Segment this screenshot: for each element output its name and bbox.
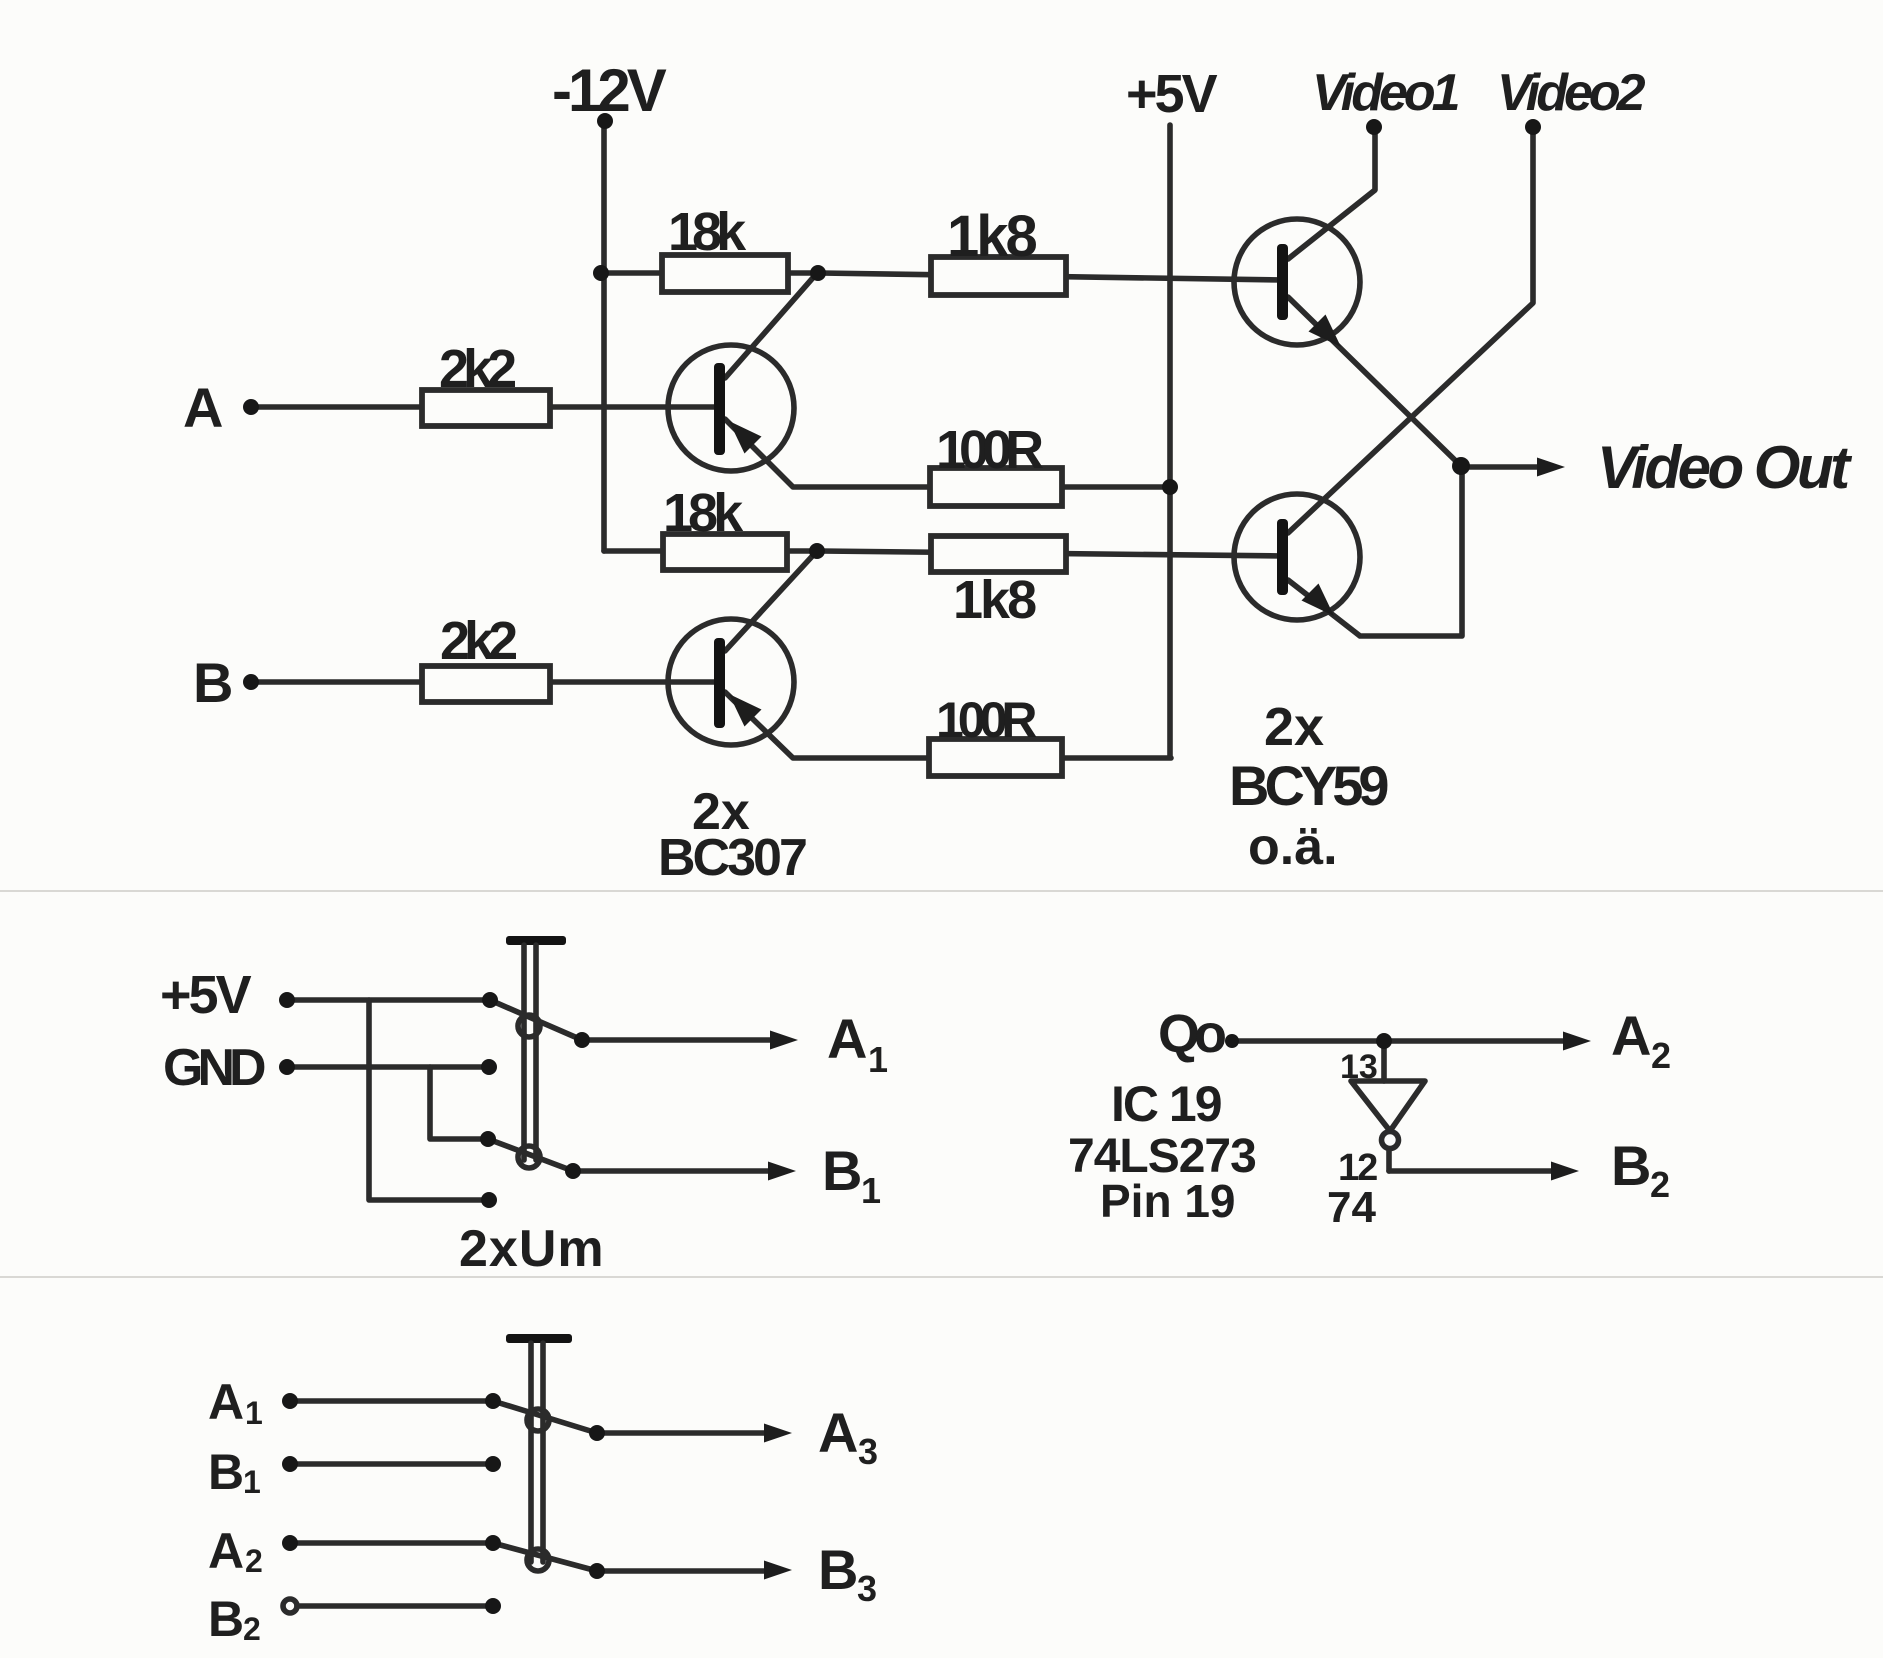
- svg-text:BCY59: BCY59: [1229, 754, 1388, 817]
- svg-text:1: 1: [868, 1039, 888, 1080]
- svg-text:A: A: [818, 1401, 858, 1464]
- svg-text:2: 2: [1651, 1035, 1671, 1076]
- svg-text:A: A: [208, 1374, 244, 1430]
- svg-text:2k2: 2k2: [439, 339, 515, 399]
- svg-text:BC307: BC307: [658, 829, 806, 887]
- svg-text:13: 13: [1340, 1048, 1378, 1086]
- svg-text:1: 1: [245, 1395, 263, 1431]
- svg-text:Pin 19: Pin 19: [1100, 1175, 1236, 1227]
- svg-text:18k: 18k: [663, 483, 744, 543]
- svg-text:GND: GND: [163, 1039, 265, 1097]
- svg-text:A: A: [1611, 1004, 1651, 1067]
- svg-text:2x: 2x: [1264, 697, 1324, 757]
- svg-text:1k8: 1k8: [953, 570, 1036, 630]
- svg-text:o.ä.: o.ä.: [1248, 818, 1338, 876]
- svg-text:2: 2: [245, 1543, 263, 1579]
- svg-text:100R: 100R: [936, 692, 1037, 748]
- svg-text:Qo: Qo: [1158, 1004, 1225, 1064]
- svg-text:A: A: [827, 1007, 867, 1070]
- svg-text:IC 19: IC 19: [1111, 1076, 1221, 1132]
- svg-text:Video Out: Video Out: [1597, 434, 1853, 501]
- svg-text:B: B: [818, 1538, 858, 1601]
- svg-text:100R: 100R: [936, 420, 1043, 480]
- svg-text:3: 3: [858, 1431, 878, 1472]
- svg-text:2xUm: 2xUm: [459, 1220, 605, 1278]
- svg-text:Video1: Video1: [1312, 64, 1459, 122]
- svg-text:B: B: [208, 1591, 244, 1647]
- svg-text:+5V: +5V: [1126, 64, 1218, 124]
- svg-text:B: B: [1611, 1134, 1651, 1197]
- svg-text:74: 74: [1327, 1183, 1376, 1232]
- svg-text:A: A: [183, 376, 223, 439]
- svg-text:B: B: [193, 651, 233, 714]
- svg-text:2: 2: [243, 1611, 261, 1647]
- svg-text:2: 2: [1650, 1164, 1670, 1205]
- svg-text:1: 1: [243, 1464, 261, 1500]
- svg-text:18k: 18k: [668, 202, 747, 262]
- svg-text:1k8: 1k8: [947, 204, 1037, 269]
- svg-text:+5V: +5V: [160, 965, 252, 1025]
- svg-text:-12V: -12V: [552, 57, 667, 124]
- svg-text:Video2: Video2: [1497, 64, 1646, 122]
- svg-text:A: A: [208, 1523, 244, 1579]
- svg-text:B: B: [208, 1444, 244, 1500]
- svg-text:B: B: [822, 1139, 862, 1202]
- svg-text:2k2: 2k2: [440, 611, 516, 671]
- svg-text:3: 3: [857, 1568, 877, 1609]
- svg-text:1: 1: [861, 1170, 881, 1211]
